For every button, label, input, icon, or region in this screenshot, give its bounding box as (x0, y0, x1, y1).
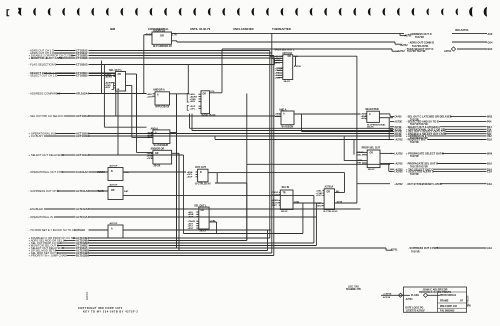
svg-text:ALT104A4: ALT104A4 (76, 215, 89, 219)
svg-text:+ADRS: +ADRS (105, 75, 113, 78)
svg-text:ACF3E: ACF3E (383, 296, 391, 299)
svg-text:+ SELECTED ALERT C: + SELECTED ALERT C (406, 170, 434, 174)
svg-text:THEREAFTER: THEREAFTER (272, 27, 291, 31)
svg-text:- ADDRESS COMPARE D: - ADDRESS COMPARE D (29, 92, 61, 96)
wire U1 input drop (144, 34, 152, 36)
wire U11 out long (208, 172, 217, 174)
wire title block flash line (381, 294, 410, 296)
gate U4 OR (201, 91, 210, 114)
svg-text:+SRV: +SRV (105, 87, 111, 89)
output net request in e (390, 139, 394, 141)
svg-text:CT102B5: CT102B5 (76, 74, 88, 78)
riser from U2 outA (136, 74, 138, 134)
svg-text:TAG*3R: TAG*3R (410, 173, 419, 176)
svg-text:OR: OR (288, 56, 292, 58)
svg-text:B04: B04 (488, 47, 493, 51)
svg-text:KEY TO MY 234-567B BY 4273F-2: KEY TO MY 234-567B BY 4273F-2 (83, 310, 138, 313)
svg-text:OR: OR (118, 74, 122, 76)
svg-text:COL,: COL, (124, 172, 130, 174)
svg-text:OR: OR (370, 153, 374, 155)
svg-text:+SRV: +SRV (190, 101, 196, 103)
wire U13 out CMA (293, 202, 322, 204)
svg-text:LA2702: LA2702 (394, 171, 403, 174)
svg-text:- ENABLED D: - ENABLED D (29, 207, 46, 211)
svg-text:TAG*3R: TAG*3R (415, 36, 424, 39)
svg-text:B-CTRL2B-XX: B-CTRL2B-XX (195, 183, 211, 185)
svg-text:- REQUEST IN E: - REQUEST IN E (406, 138, 426, 142)
wire U17 out (123, 229, 271, 231)
svg-text:200: 200 (467, 306, 472, 308)
svg-text:+CSF3E: +CSF3E (383, 293, 392, 295)
svg-text:FRAME: FRAME (440, 300, 449, 303)
svg-text:LOBL: LOBL (210, 220, 217, 222)
svg-text:IBM: IBM (110, 27, 116, 31)
svg-text:ALT101A6: ALT101A6 (76, 189, 89, 193)
svg-text:+A2702: +A2702 (394, 183, 403, 186)
svg-text:OR: OR (203, 93, 207, 95)
svg-text:SCHEME 27B: SCHEME 27B (346, 289, 361, 291)
svg-text:ACT104A5: ACT104A5 (76, 153, 90, 157)
wire U4 out to tags select (210, 92, 214, 94)
svg-text:LTR: LTR (172, 34, 177, 37)
wire U9 outs (379, 113, 390, 115)
wire U14 out SY1R (335, 202, 357, 204)
output net selected and su to e (390, 121, 394, 123)
svg-text:FLASH: FLASH (411, 294, 419, 297)
svg-text:SCF3E: SCF3E (394, 136, 402, 138)
svg-text:W-P ADRS2B-XX: W-P ADRS2B-XX (153, 45, 172, 48)
svg-text:- SUPPRESS OUT C PWR: - SUPPRESS OUT C PWR (408, 247, 438, 250)
wire U14 out SB (335, 192, 345, 194)
jog flag selection to U5 (274, 58, 276, 65)
output net tags select out (222, 48, 392, 50)
svg-text:A1A: A1A (487, 247, 492, 250)
U5 lower stubs (278, 67, 283, 69)
svg-text:+RST: +RST (271, 205, 277, 207)
output net enable e select out ltch (390, 133, 394, 135)
svg-text:- OUT SYSTEM RESET LATCH: - OUT SYSTEM RESET LATCH (406, 183, 442, 186)
svg-text:- OPERATIONAL OUT CH D: - OPERATIONAL OUT CH D (29, 170, 64, 174)
svg-text:A2701: A2701 (391, 249, 398, 252)
svg-text:A: A (155, 132, 157, 135)
svg-text:LA2702: LA2702 (394, 153, 403, 156)
svg-text:P.N. 8665065: P.N. 8665065 (440, 310, 455, 313)
svg-text:+RST: +RST (188, 216, 194, 218)
svg-text:2B-XX: 2B-XX (367, 127, 374, 129)
svg-text:2B: 2B (117, 89, 120, 91)
svg-text:OR: OR (111, 190, 115, 192)
svg-text:+ PRIORITY IN + JUMP CHAIN: + PRIORITY IN + JUMP CHAIN (29, 254, 68, 258)
svg-text:SY1R: SY1R (337, 201, 343, 203)
svg-text:+ CU BUSY D: + CU BUSY D (29, 134, 46, 138)
wire U1 output row A (172, 32, 405, 34)
svg-text:+ ADDRESS OUT D: + ADDRESS OUT D (408, 32, 432, 36)
svg-text:+RST: +RST (188, 228, 194, 230)
wire U7 out (172, 152, 179, 154)
title block divider (437, 292, 439, 312)
svg-text:OR: OR (155, 153, 159, 155)
svg-text:+A2702: +A2702 (394, 163, 403, 166)
svg-text:2B-XX: 2B-XX (281, 211, 288, 213)
wire prop box feeders (343, 136, 345, 161)
svg-text:A: A (111, 228, 113, 231)
svg-text:TLVR: TLVR (98, 190, 104, 193)
svg-text:B-CTRL B-XX: B-CTRL B-XX (324, 211, 338, 213)
svg-text:A2 MODR: A2 MODR (467, 295, 470, 306)
svg-text:A2702: A2702 (444, 50, 452, 53)
output net propagate sel out e (390, 163, 394, 165)
stub jogs into U5 upper (270, 55, 283, 57)
svg-text:- PROPAGATE SEL OUT E: - PROPAGATE SEL OUT E (406, 162, 438, 166)
wire U7 inputs (137, 151, 153, 153)
svg-text:W02: W02 (487, 116, 493, 119)
svg-text:PROP SEL OUT: PROP SEL OUT (362, 147, 381, 150)
svg-text:- SEL OUT C LATCHED OR DELAYED: - SEL OUT C LATCHED OR DELAYED (406, 115, 452, 119)
svg-text:P04: P04 (487, 121, 492, 124)
svg-text:TR: TR (283, 193, 286, 195)
verticals below U14 (313, 195, 315, 243)
output net tag select out c (390, 168, 394, 170)
svg-text:+ MONITOR HEAVY CAPS: + MONITOR HEAVY CAPS (29, 56, 63, 60)
svg-text:+LOAD: +LOAD (271, 194, 279, 197)
svg-text:1175E77D A2701F: 1175E77D A2701F (406, 310, 426, 313)
svg-text:ESF3E: ESF3E (294, 66, 301, 68)
svg-text:- SELECT OUT CH 1 E: - SELECT OUT CH 1 E (29, 74, 58, 78)
wire U2 out B (126, 85, 132, 87)
wire bus prop row (247, 163, 390, 165)
svg-text:LOG. TAG: LOG. TAG (348, 285, 359, 288)
svg-text:- OPERATIONAL IN D: - OPERATIONAL IN D (29, 215, 56, 219)
title block (404, 287, 467, 312)
svg-text:A: A (157, 93, 159, 96)
wire U12 out (209, 221, 216, 223)
sprocket hole strip (7, 7, 488, 17)
wire U15 out (123, 171, 186, 173)
wire request-in feed bus (215, 139, 392, 141)
svg-text:OR: OR (201, 210, 205, 212)
output net sel out c latched or delayed (390, 115, 394, 117)
wire sel out pri long to U8 (274, 115, 276, 117)
svg-text:A03: A03 (488, 32, 493, 36)
svg-text:+A2702: +A2702 (400, 44, 409, 47)
svg-text:ALT102A6: ALT102A6 (76, 207, 89, 211)
svg-text:UNTIL 03-30-79: UNTIL 03-30-79 (190, 27, 211, 31)
svg-text:B1A: B1A (487, 163, 492, 166)
wire U10 out B (380, 163, 392, 165)
svg-text:SB,: SB, (336, 191, 340, 193)
wire U2 out A (126, 73, 137, 75)
wire U4 bottom to bus pair (189, 114, 191, 129)
svg-text:DAT: DAT (124, 190, 129, 193)
svg-text:ATAG8: ATAG8 (76, 228, 85, 232)
output net address in e (390, 135, 394, 137)
svg-text:A2701A: A2701A (325, 186, 334, 189)
svg-text:U02: U02 (487, 135, 492, 138)
output net operational out c or sel (390, 128, 394, 130)
svg-text:C4A02: C4A02 (394, 116, 402, 119)
svg-text:TAG*3R: TAG*3R (411, 250, 420, 253)
bottom bus risers (176, 94, 178, 248)
svg-text:+A2702: +A2702 (394, 139, 403, 142)
svg-text:R1A: R1A (487, 139, 492, 142)
bus pair to selected (190, 127, 394, 129)
svg-text:G04: G04 (488, 41, 493, 45)
wire riser left (101, 61, 103, 94)
svg-text:UNCLASSIFIED: UNCLASSIFIED (233, 27, 254, 31)
svg-text:CT102A3: CT102A3 (76, 63, 88, 67)
bus row 131.5 (302, 131, 394, 133)
svg-text:ACT102B6: ACT102B6 (76, 134, 90, 138)
wire out system reset row (357, 183, 390, 185)
svg-text:M-SEL2B-XX: M-SEL2B-XX (202, 115, 216, 117)
svg-text:+DVC: +DVC (316, 195, 322, 197)
svg-text:+A2702: +A2702 (397, 50, 406, 53)
svg-text:2B-XX: 2B-XX (284, 81, 291, 83)
svg-text:PROPOSED IN PRO PRINTS: PROPOSED IN PRO PRINTS (419, 291, 451, 294)
svg-text:IBM CORP. 100: IBM CORP. 100 (440, 305, 458, 308)
svg-text:AT: AT (460, 300, 464, 303)
wire mid bus 233.5 (184, 233, 303, 235)
svg-text:- SEL OUT PRI CU SEL/D D: - SEL OUT PRI CU SEL/D D (29, 114, 64, 118)
stub brackets U4 (187, 94, 189, 103)
svg-text:TAG*3R TAG*3R: TAG*3R TAG*3R (407, 50, 426, 53)
svg-text:TAG*3R: TAG*3R (410, 141, 419, 144)
svg-text:OR: OR (160, 35, 164, 38)
svg-text:2B-XX: 2B-XX (200, 231, 207, 233)
wire U8 drop (301, 114, 303, 132)
svg-text:SELECTED: SELECTED (365, 108, 379, 111)
wire riser flag to U4 (187, 65, 189, 94)
svg-text:+ SELECT OUT DELAYED D: + SELECT OUT DELAYED D (29, 153, 65, 157)
wire select out ch 1 pair (44, 73, 76, 75)
svg-text:M-PLY2B-XX: M-PLY2B-XX (156, 107, 170, 109)
output net address out (399, 33, 401, 35)
wire U3 out (170, 93, 190, 95)
svg-text:- FLAG SELECTION D: - FLAG SELECTION D (29, 63, 57, 67)
svg-text:B: B (111, 171, 113, 173)
svg-text:ACT102A5: ACT102A5 (76, 114, 90, 118)
svg-text:2B-XX: 2B-XX (154, 166, 161, 168)
wire U5 output long (293, 55, 357, 57)
svg-text:OR: OR (327, 191, 331, 193)
svg-text:C4A: C4A (487, 183, 492, 186)
output net adrs out conn (394, 42, 396, 44)
wire U2 drop to delayed row (117, 91, 119, 155)
svg-text:DVC OUT: DVC OUT (195, 166, 206, 169)
wire U3 drop (176, 94, 178, 248)
svg-text:DLT102B6: DLT102B6 (76, 254, 89, 258)
svg-text:+ PROPAGATE SELECT OUT D: + PROPAGATE SELECT OUT D (406, 152, 444, 156)
svg-text:PROD-SNCH-E: PROD-SNCH-E (440, 295, 457, 297)
svg-text:+SUP: +SUP (187, 177, 193, 179)
wire U6 out (170, 132, 177, 134)
svg-text:+OPL: +OPL (190, 108, 196, 110)
svg-text:DATE LOGIC PG: DATE LOGIC PG (406, 307, 424, 310)
svg-text:CT102B8: CT102B8 (76, 56, 88, 60)
output net propagate select out d (390, 152, 394, 154)
svg-text:2B-XX: 2B-XX (368, 169, 375, 171)
svg-text:SEL IN: SEL IN (282, 186, 290, 189)
wire U5 feedback tap (295, 56, 297, 66)
output net selected alert c (390, 170, 394, 172)
wire U8 out (294, 113, 361, 115)
svg-text:008 A2701: 008 A2701 (455, 28, 469, 32)
svg-text:MACH: MACH (98, 171, 105, 174)
svg-text:ACF3E: ACF3E (394, 121, 402, 124)
svg-text:- SUPPRESS OUT CH D: - SUPPRESS OUT CH D (29, 189, 60, 193)
svg-text:W04: W04 (487, 153, 493, 156)
riser to U11 (246, 94, 248, 241)
svg-text:TAGS SEL OUT L: TAGS SEL OUT L (274, 49, 295, 52)
svg-text:C1A: C1A (487, 171, 492, 174)
output net select out /latched c (390, 126, 394, 128)
svg-text:A: A (283, 113, 285, 116)
vertical pair center (183, 155, 185, 234)
svg-text:W-ASSIGN: W-ASSIGN (282, 125, 294, 128)
wire U16 out (123, 194, 314, 196)
svg-text:ATL102A4: ATL102A4 (76, 92, 89, 96)
svg-text:- TO MOD SET E = BLOCK SU TO C: - TO MOD SET E = BLOCK SU TO CU (29, 228, 77, 232)
wire suppress out c pwr row (385, 248, 387, 250)
svg-text:+SEL: +SEL (356, 154, 362, 156)
svg-text:+CHG: +CHG (147, 96, 153, 98)
stub bracket U2 lower inputs (112, 83, 114, 90)
wire U1 output row B (172, 40, 177, 42)
svg-text:A2701F: A2701F (86, 291, 89, 300)
svg-text:AND/OR A: AND/OR A (153, 88, 165, 91)
svg-text:CMA: CMA (294, 200, 299, 203)
svg-text:A2701: A2701 (406, 298, 414, 301)
svg-text:TAG*3R: TAG*3R (410, 155, 419, 158)
output net sel out + select out ltch (390, 131, 394, 133)
svg-text:B: B (200, 172, 202, 174)
wire U10 inputs from riser (357, 151, 362, 153)
svg-text:A: A (369, 113, 371, 116)
wire U10 out A (380, 152, 392, 154)
svg-text:CA101A2: CA101A2 (76, 170, 88, 174)
